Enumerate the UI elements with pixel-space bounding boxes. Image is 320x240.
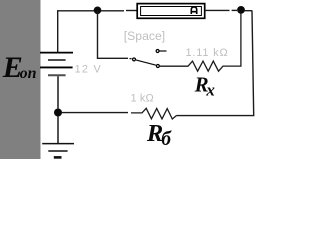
- svg-text:оп: оп: [20, 65, 37, 82]
- svg-text:1.11 kΩ: 1.11 kΩ: [186, 47, 229, 59]
- svg-text:12 V: 12 V: [75, 64, 102, 76]
- svg-text:[Space]: [Space]: [124, 29, 165, 43]
- svg-text:1 kΩ: 1 kΩ: [131, 92, 154, 104]
- svg-text:x: x: [205, 81, 215, 100]
- svg-text:б: б: [161, 129, 172, 150]
